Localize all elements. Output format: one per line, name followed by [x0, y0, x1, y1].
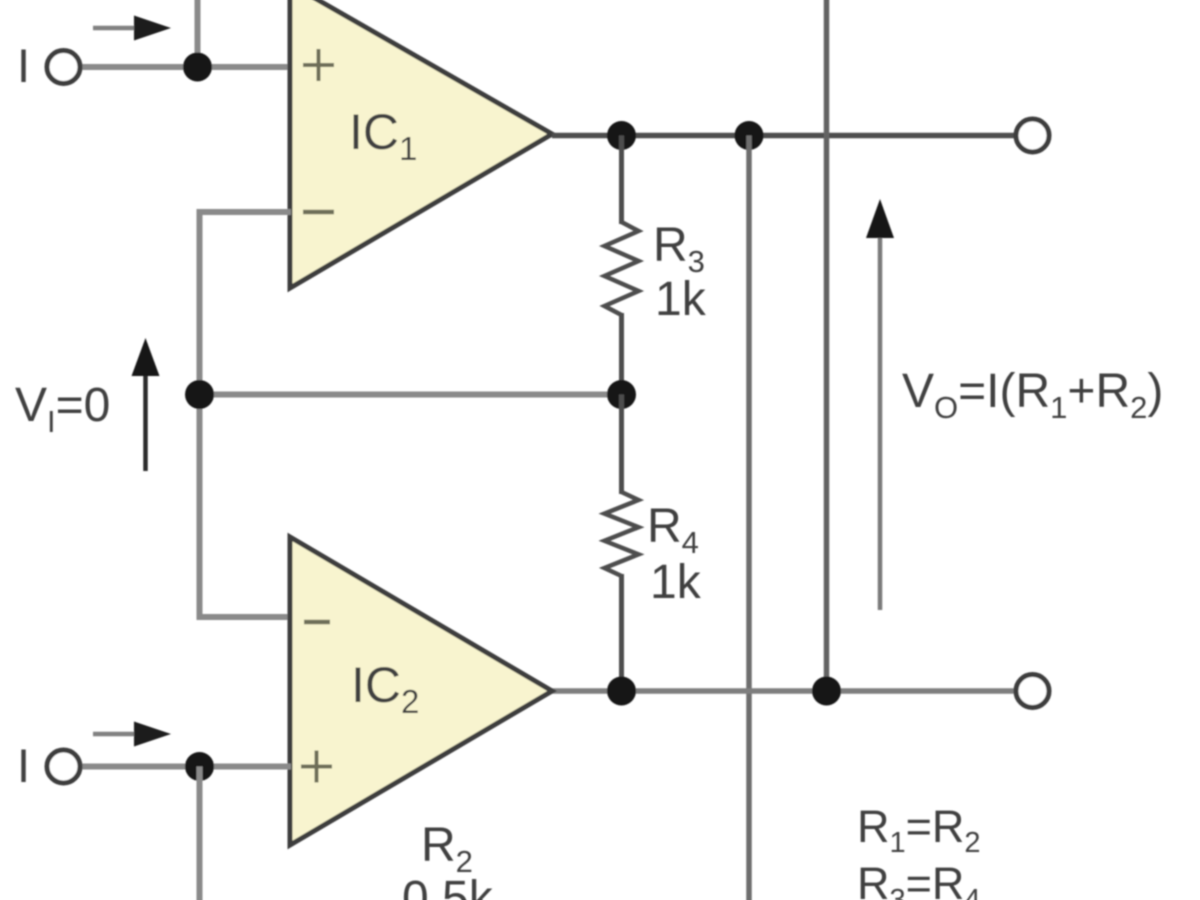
junction: IC1 output / R3: [607, 121, 636, 150]
svg-text:I: I: [17, 739, 30, 792]
wire: R3 bottom lead: [619, 313, 624, 395]
svg-text:VI=0: VI=0: [15, 379, 110, 439]
resistor R3: [605, 222, 639, 315]
svg-text:R4: R4: [647, 500, 699, 560]
op-amp IC1: [290, 0, 552, 288]
wire: IC1 inverting input stub: [197, 209, 292, 215]
wire: left vertical bus (IC1 - to IC2 -): [197, 209, 203, 620]
wire: drop from IC1 output to R2 (bottom edge): [746, 136, 752, 900]
junction: bottom input node: [185, 752, 214, 781]
svg-text:R2: R2: [421, 819, 473, 879]
wire: drop from bottom input node to bottom edge: [197, 767, 203, 900]
svg-text:0.5k: 0.5k: [402, 872, 494, 900]
svg-text:I: I: [17, 39, 30, 92]
op-amp IC2: [290, 537, 552, 845]
wire: top input to IC1 + input: [80, 64, 291, 70]
svg-text:R3: R3: [653, 219, 705, 279]
junction: mid node right: [607, 380, 636, 409]
arrow VO (up): [866, 199, 894, 610]
wire: R4 top lead: [619, 395, 624, 495]
wire: R4 bottom lead: [619, 574, 624, 691]
svg-text:R3=R4: R3=R4: [857, 858, 981, 900]
pin label - (IC1 inverting): [303, 210, 334, 215]
pin label + (IC1 noninverting): [303, 49, 334, 81]
output terminal (bottom): [1016, 675, 1049, 708]
current arrow I (top input): [93, 16, 171, 41]
junction: IC2 output / R1: [812, 677, 841, 706]
pin label - (IC2 inverting): [304, 620, 330, 625]
current arrow I (bottom input): [93, 722, 171, 747]
input terminal I (bottom): [47, 750, 80, 783]
junction: IC1 output / R2 drop: [735, 121, 764, 150]
wire: R3 top lead: [619, 136, 624, 225]
arrow VI (up): [132, 338, 160, 471]
output terminal (top): [1016, 119, 1049, 152]
svg-text:1k: 1k: [650, 556, 702, 609]
junction: mid node left: [185, 380, 214, 409]
svg-text:1k: 1k: [655, 273, 707, 326]
junction: IC2 output / R4: [607, 677, 636, 706]
wire: R1 vertical from top edge to IC2 output: [824, 0, 830, 691]
wire: IC2 inverting input stub: [197, 614, 292, 620]
wire: IC1 output row: [552, 133, 1016, 139]
svg-text:R1=R2: R1=R2: [857, 801, 981, 859]
resistor R4: [605, 492, 639, 576]
svg-text:VO=I(R1+R2): VO=I(R1+R2): [902, 365, 1163, 425]
input terminal I (top): [47, 51, 80, 84]
wire: mid node horizontal: [200, 392, 622, 398]
pin label + (IC2 noninverting): [301, 751, 332, 783]
wire: bottom input to IC2 + input: [80, 764, 291, 770]
wire: stub from top edge to IC1 + node: [195, 0, 201, 67]
wire: IC2 output row: [552, 688, 1016, 694]
junction: top input node: [183, 53, 212, 82]
